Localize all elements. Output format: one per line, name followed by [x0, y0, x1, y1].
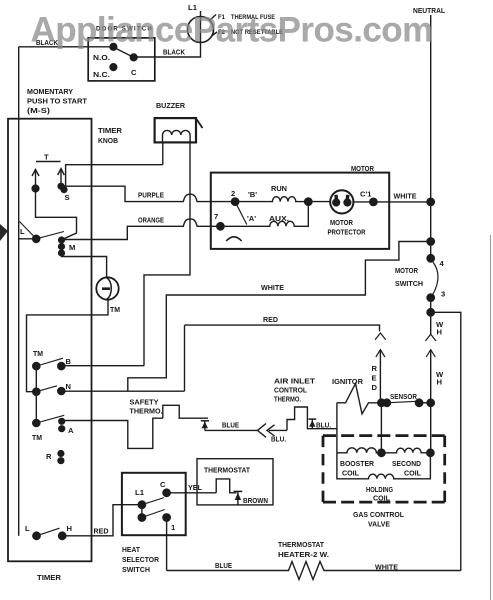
motor RUN winding	[235, 197, 308, 202]
svg-text:C: C	[131, 68, 137, 77]
svg-text:SENSOR: SENSOR	[390, 392, 417, 401]
svg-text:BOOSTER: BOOSTER	[340, 459, 374, 468]
junction neutral white-staircase	[427, 238, 434, 245]
momentary actuator diagonal	[20, 222, 37, 239]
terminal marker blu right	[309, 419, 317, 429]
connector chevron WH upper	[425, 334, 436, 341]
svg-text:RED: RED	[263, 315, 278, 324]
svg-text:3: 3	[441, 290, 445, 299]
svg-text:THERMO.: THERMO.	[274, 395, 301, 404]
motor switch blade arc	[433, 262, 438, 294]
gas control valve dashed box	[323, 436, 445, 503]
svg-text:H: H	[437, 378, 442, 387]
svg-text:B: B	[66, 357, 72, 366]
thermostat box	[197, 459, 273, 505]
sensor contact dot	[415, 399, 422, 406]
contact S dots	[57, 183, 67, 194]
wire to protector	[308, 201, 330, 203]
fuse F1 F2 circle	[188, 17, 214, 43]
push arrow right	[58, 169, 65, 185]
connector arrow WH lower	[426, 350, 435, 403]
contact TM/A pivot	[33, 419, 40, 426]
wire M to timer motor TM	[62, 253, 107, 278]
svg-text:HEATER-2 W.: HEATER-2 W.	[278, 550, 329, 559]
heat selector box	[122, 473, 186, 535]
thermostat heater resistor	[284, 562, 327, 580]
wire B to buzzer drop	[61, 365, 144, 367]
svg-text:BLU.: BLU.	[316, 421, 331, 430]
door switch box	[88, 38, 155, 81]
svg-text:N: N	[66, 382, 71, 391]
svg-text:IGNITOR: IGNITOR	[332, 377, 363, 386]
svg-text:D: D	[372, 383, 378, 392]
motor box	[211, 173, 389, 249]
svg-text:PROTECTOR: PROTECTOR	[328, 228, 366, 237]
junction neutral sensor	[427, 399, 434, 406]
second coil	[381, 448, 430, 453]
contact M dots	[58, 236, 65, 256]
motor switch contact 3	[427, 294, 434, 301]
svg-text:2: 2	[231, 189, 235, 198]
svg-text:TM: TM	[32, 433, 42, 442]
svg-text:WHITE: WHITE	[261, 283, 284, 292]
svg-text:GAS CONTROL: GAS CONTROL	[353, 510, 404, 519]
svg-text:C: C	[160, 480, 166, 489]
blade pivot2 to 1	[142, 510, 165, 518]
svg-text:H: H	[67, 524, 72, 533]
svg-text:H: H	[437, 328, 442, 337]
svg-text:L: L	[20, 227, 25, 236]
motor switch contact 4	[427, 255, 434, 262]
label R E D vertical	[372, 364, 378, 392]
label SECOND COIL	[392, 459, 421, 478]
svg-text:SWITCH: SWITCH	[395, 279, 423, 288]
svg-text:THERMOSTAT: THERMOSTAT	[204, 466, 250, 475]
svg-text:COIL: COIL	[404, 469, 421, 478]
svg-text:RED: RED	[94, 527, 109, 536]
label THERMOSTAT HEATER-2 W.	[278, 540, 329, 559]
switch blade L to H	[37, 528, 60, 536]
motor terminal 7	[217, 223, 224, 230]
wire N to risers	[61, 390, 184, 392]
heat pivot 2	[138, 514, 145, 521]
contact B	[58, 363, 65, 370]
label W H upper	[436, 320, 444, 337]
contact L of timer L-H	[33, 532, 40, 539]
booster coil	[337, 448, 382, 453]
wire RED H to heat selector	[62, 505, 142, 536]
wire left rail down to L-H switch	[18, 47, 20, 536]
motor terminal 2	[231, 198, 238, 205]
svg-text:BLU.: BLU.	[271, 435, 286, 444]
label AIR INLET CONTROL THERMO	[274, 377, 315, 404]
svg-text:N.C.: N.C.	[93, 70, 110, 79]
svg-text:'B': 'B'	[248, 190, 257, 199]
svg-text:THERMOSTAT: THERMOSTAT	[278, 540, 324, 549]
contact 1 heat	[163, 514, 170, 521]
wire A to safety thermo	[62, 418, 163, 448]
sensor blade	[387, 401, 419, 403]
sensor pivot dot	[383, 399, 390, 406]
svg-text:RUN: RUN	[271, 184, 287, 193]
timer motor squiggle	[102, 278, 111, 299]
svg-text:L: L	[25, 524, 30, 533]
svg-text:KNOB: KNOB	[98, 136, 118, 145]
wire neutral down to valve	[430, 403, 432, 453]
label BOOSTER COIL	[340, 459, 374, 478]
svg-text:ORANGE: ORANGE	[138, 216, 164, 225]
label SAFETY THERMO	[130, 398, 163, 416]
push arrow left	[32, 170, 39, 192]
svg-text:BUZZER: BUZZER	[156, 101, 185, 110]
wire NEUTRAL main vertical	[430, 15, 432, 261]
label GAS CONTROL VALVE	[353, 510, 404, 529]
wire protector to C'1	[353, 201, 389, 203]
junction neutral branch	[427, 309, 434, 316]
terminal marker brown	[234, 491, 243, 505]
svg-text:E: E	[372, 374, 377, 383]
contact N.O.	[110, 43, 117, 50]
svg-text:R: R	[46, 452, 52, 461]
svg-text:AppliancePartsPros.com: AppliancePartsPros.com	[31, 11, 433, 50]
contact L pivot	[33, 235, 40, 242]
wire WHITE motor to neutral	[389, 201, 431, 203]
motor protector contacts	[332, 195, 351, 207]
svg-text:MOTOR: MOTOR	[330, 218, 353, 227]
connector chevron RED upper	[375, 333, 386, 340]
contact H	[59, 532, 66, 539]
svg-text:T: T	[44, 153, 49, 162]
timer box	[8, 119, 92, 562]
wire WHITE staircase N to neutral	[128, 242, 431, 392]
junction white neutral	[427, 198, 434, 205]
switch blade TM to A	[36, 415, 64, 423]
contact L1 heat	[138, 501, 145, 508]
connector chevrons BLU	[258, 424, 275, 438]
svg-text:M: M	[69, 243, 75, 252]
thermostat bump	[216, 479, 236, 493]
wire 1 down to blue bottom	[166, 518, 168, 571]
contact C heat	[163, 489, 170, 496]
svg-text:YEL: YEL	[188, 483, 202, 492]
junction run aux	[305, 198, 312, 205]
motor AUX winding	[220, 202, 308, 227]
wire through fuse	[200, 17, 202, 43]
wire ORANGE M to motor terminal 7	[62, 219, 221, 240]
svg-text:MOTOR: MOTOR	[395, 266, 418, 275]
terminal marker blue left	[201, 421, 209, 431]
svg-text:N.O.: N.O.	[93, 53, 110, 62]
wire red arrow junction to valve coils	[380, 403, 382, 453]
wire WHITE bottom	[327, 570, 461, 572]
svg-text:AUX.: AUX.	[269, 214, 289, 223]
switch blade TM to B	[36, 358, 63, 366]
safety thermo bump	[163, 405, 208, 418]
contact C of door switch	[130, 54, 137, 61]
svg-text:L1: L1	[135, 488, 145, 497]
wire BLU to air inlet thermo	[269, 429, 287, 431]
svg-text:TM: TM	[33, 349, 43, 358]
svg-text:THERMO.: THERMO.	[130, 407, 163, 416]
svg-text:AIR INLET: AIR INLET	[274, 377, 315, 386]
contact N	[58, 387, 65, 394]
switch blade N	[36, 386, 57, 392]
wire YEL C to thermostat	[167, 492, 217, 494]
wire from left push pole to M	[36, 189, 77, 240]
wire buzzer right lead down to B	[144, 142, 190, 365]
wire TM return to N pivot	[27, 299, 109, 391]
svg-text:PURPLE: PURPLE	[138, 191, 164, 200]
junction red-ignitor	[378, 399, 385, 406]
scan mark left edge	[0, 224, 8, 241]
switch blade L to M	[36, 232, 64, 239]
contact A dots	[58, 418, 65, 433]
svg-text:BLUE: BLUE	[215, 561, 232, 570]
wire BLUE bottom	[167, 570, 284, 572]
wire buzzer left lead to S wire	[162, 142, 164, 164]
svg-text:WHITE: WHITE	[394, 192, 417, 201]
label MOTOR PROTECTOR	[328, 218, 366, 237]
buzzer corner tick	[196, 119, 203, 129]
svg-text:TM: TM	[110, 305, 120, 314]
svg-text:A: A	[68, 426, 74, 435]
svg-text:WHITE: WHITE	[375, 563, 398, 572]
svg-text:R: R	[372, 364, 378, 373]
svg-text:S: S	[65, 193, 70, 202]
wire S riser to buzzer	[66, 165, 163, 186]
timer knob T bar	[36, 161, 61, 163]
svg-text:SECOND: SECOND	[392, 459, 421, 468]
svg-text:TIMER: TIMER	[98, 126, 123, 135]
svg-text:HEAT: HEAT	[122, 545, 140, 554]
svg-text:MOTOR: MOTOR	[351, 164, 374, 173]
label HOLDING COIL	[366, 485, 393, 503]
contact N pivot	[33, 388, 40, 395]
label MOTOR SWITCH	[395, 266, 423, 288]
contact R dots	[57, 450, 64, 464]
label HEAT SELECTOR SWITCH	[122, 545, 159, 574]
connector arrow RED lower	[376, 350, 385, 403]
label TIMER KNOB	[98, 126, 123, 145]
svg-text:'A': 'A'	[247, 214, 256, 223]
fuse leader line F2	[212, 32, 218, 36]
wire sensor to neutral	[419, 402, 431, 404]
wire pivot chain TM-N-TM	[35, 366, 37, 423]
svg-text:COIL: COIL	[373, 494, 390, 503]
svg-text:BROWN: BROWN	[243, 496, 268, 505]
heat pivot stem	[141, 505, 143, 518]
wire PURPLE S to motor terminal 2	[64, 186, 235, 201]
scan edge line right	[490, 235, 492, 600]
ignitor zigzag	[337, 384, 382, 414]
svg-text:COIL: COIL	[342, 469, 359, 478]
svg-text:C'1: C'1	[360, 190, 372, 199]
svg-text:BLUE: BLUE	[222, 421, 239, 430]
buzzer box	[155, 118, 196, 142]
blade L1 to C	[142, 498, 164, 505]
wire rail to L pivot	[19, 238, 37, 240]
contact TM/B pivot	[33, 363, 40, 370]
fuse leader line F1	[210, 15, 217, 21]
switch blade C to N.O.	[111, 46, 134, 58]
wire RED to ignitor connector	[185, 325, 380, 331]
wire L1 lead down to fuse	[200, 11, 202, 17]
svg-text:SELECTOR: SELECTOR	[122, 555, 159, 564]
svg-text:MOMENTARY: MOMENTARY	[27, 87, 73, 96]
motor terminal C'1	[370, 198, 377, 205]
holding coil branch	[337, 453, 431, 479]
svg-text:7: 7	[214, 212, 218, 221]
svg-text:CONTROL: CONTROL	[274, 386, 307, 395]
motor centrifugal arc	[226, 237, 241, 241]
junction second neutral	[427, 449, 434, 456]
wire riser blu to ignitor line and valve	[336, 403, 338, 453]
motor protector circle	[330, 190, 353, 213]
svg-text:(M-S): (M-S)	[27, 106, 51, 115]
label MOMENTARY PUSH TO START	[27, 87, 87, 115]
motor start blade 2 to aux	[235, 202, 247, 225]
wire fuse to C of door switch (BLACK)	[134, 43, 201, 58]
wire BLUE to connector	[205, 429, 258, 431]
svg-text:SWITCH: SWITCH	[122, 565, 150, 574]
buzzer coil	[163, 130, 191, 142]
timer motor TM circle	[96, 277, 118, 299]
wire BLACK from N.O. to left rail	[19, 46, 114, 48]
svg-text:PUSH TO START: PUSH TO START	[27, 97, 87, 106]
svg-text:SAFETY: SAFETY	[130, 398, 159, 407]
junction booster second	[378, 449, 385, 456]
contact N.C.	[110, 64, 117, 71]
svg-text:TIMER: TIMER	[37, 573, 62, 582]
label W H lower	[436, 370, 444, 387]
svg-text:VALVE: VALVE	[368, 520, 390, 529]
air inlet thermo castle	[287, 407, 337, 430]
wire branch to bottom white	[431, 312, 461, 570]
wire RED riser	[184, 325, 186, 391]
